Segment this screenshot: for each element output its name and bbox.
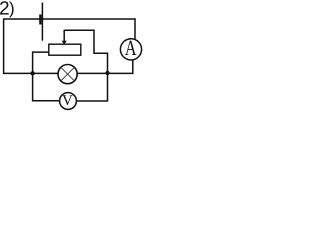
battery GB short thick plate bbox=[39, 15, 41, 25]
voltmeter PV circle bbox=[60, 93, 77, 110]
wire ammeter bottom lead bbox=[132, 60, 134, 75]
wire voltmeter left branch bbox=[33, 73, 60, 101]
wire voltmeter right branch bbox=[76, 73, 107, 101]
ammeter PA letter A bbox=[125, 41, 136, 55]
wire top horizontal bbox=[4, 18, 136, 20]
wire ammeter top lead bbox=[134, 18, 136, 40]
ammeter PA circle bbox=[120, 39, 141, 60]
wire slider step to right junction bbox=[64, 30, 107, 73]
battery GB long plate bbox=[41, 3, 43, 41]
label "2)" bbox=[0, 1, 9, 14]
rheostat R body bbox=[49, 44, 81, 55]
voltmeter PV letter V bbox=[62, 95, 72, 105]
rheostat R slider arrow bbox=[63, 30, 65, 42]
node junction dot right bbox=[105, 71, 109, 75]
wire left vertical bbox=[3, 18, 5, 74]
wire rheostat left lead bbox=[33, 52, 49, 73]
lamp EL circle with cross bbox=[58, 65, 77, 84]
node junction dot left bbox=[30, 71, 34, 75]
wire bottom horizontal (lamp row) bbox=[3, 72, 134, 74]
